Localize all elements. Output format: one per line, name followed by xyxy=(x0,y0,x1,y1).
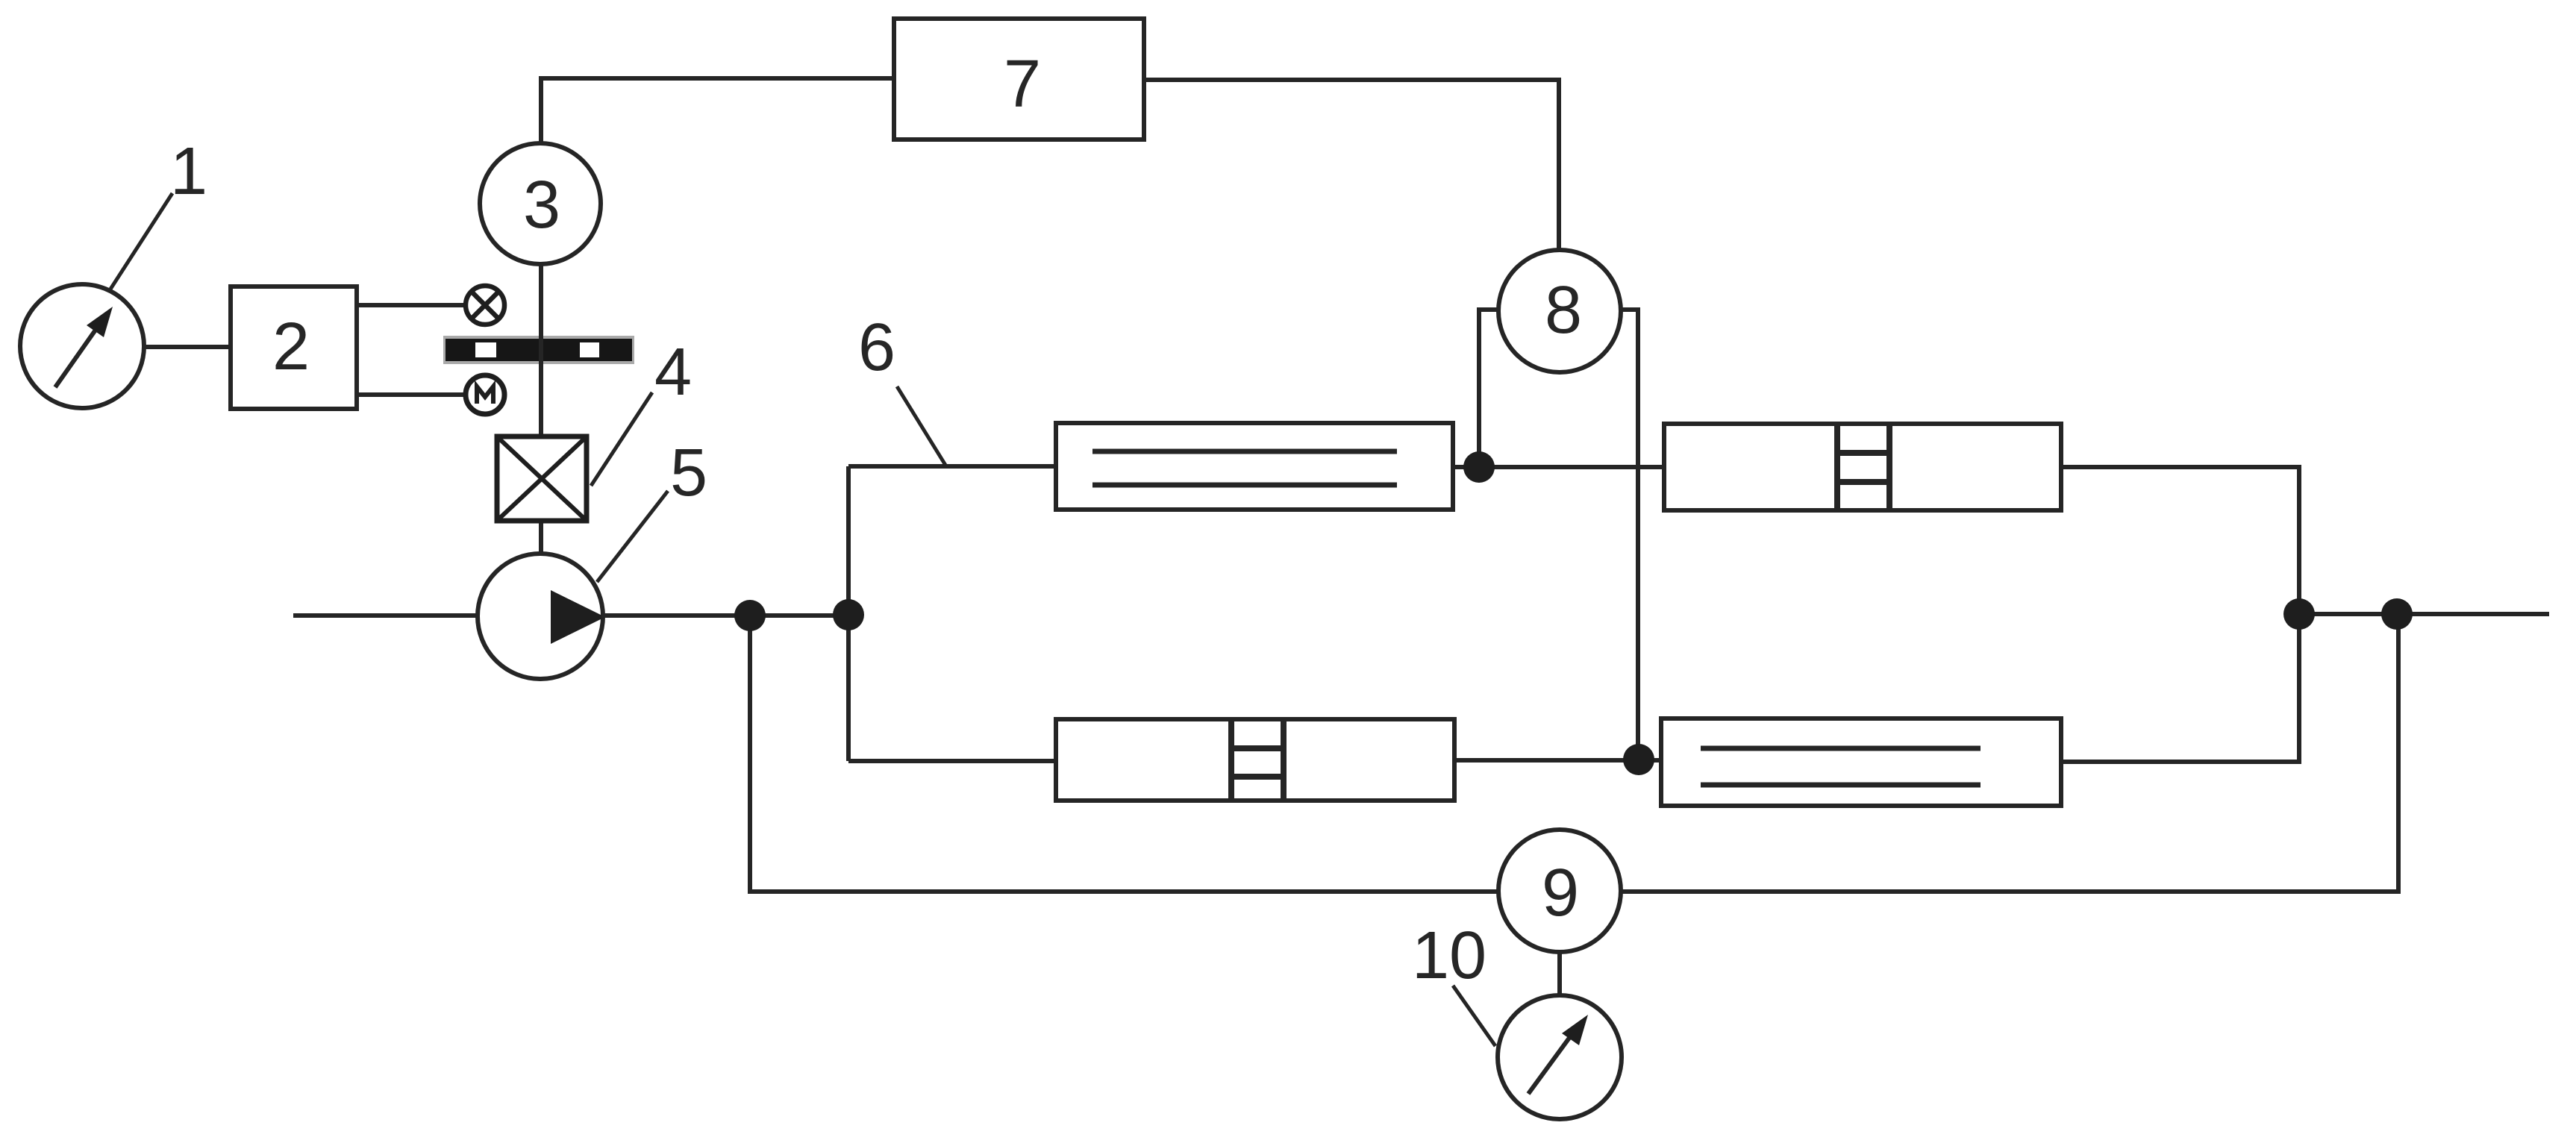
branch vertical at node B xyxy=(846,466,851,761)
node B xyxy=(833,599,864,630)
flow meter 8 xyxy=(1498,250,1621,372)
node C xyxy=(1463,451,1495,483)
leader line to label 6 xyxy=(897,386,946,466)
svg-text:4: 4 xyxy=(654,335,692,410)
svg-text:1: 1 xyxy=(170,134,207,209)
svg-text:3: 3 xyxy=(523,168,560,242)
measuring loop: node A down, bottom wire to circle 9 xyxy=(750,616,1498,892)
svg-text:8: 8 xyxy=(1545,273,1582,348)
wire column: corner to circle3 top xyxy=(541,78,894,143)
controller box 7 xyxy=(894,19,1144,140)
leader line to label 5 xyxy=(597,491,668,582)
svg-text:10: 10 xyxy=(1412,918,1486,993)
svg-text:6: 6 xyxy=(858,310,895,385)
wire gauge1 to box2 xyxy=(144,345,231,349)
motor symbol (circle with M) xyxy=(466,375,504,414)
node E xyxy=(2283,598,2315,630)
main wire pump to node B xyxy=(601,613,848,618)
wire heat pipe4 to right corner up to node E xyxy=(2061,760,2301,764)
upper branch wire to heat pipe 1 xyxy=(848,464,1056,469)
svg-text:5: 5 xyxy=(670,436,707,510)
svg-text:2: 2 xyxy=(272,310,310,384)
leader line to label 10 xyxy=(1453,986,1495,1046)
svg-text:9: 9 xyxy=(1542,856,1579,930)
lamp symbol (circle with X) xyxy=(466,286,504,325)
main outlet wire xyxy=(2299,612,2549,616)
wire orifice2 to right corner, down through node E xyxy=(2061,467,2299,761)
wire heat pipe1 to orifice 2 xyxy=(1453,465,1664,469)
pump 5 (circle with triangle) xyxy=(478,554,605,679)
circle8 left leg xyxy=(1479,310,1500,467)
wire orifice3 to heat pipe 4 xyxy=(1454,758,1661,763)
control unit 2 xyxy=(231,286,357,409)
svg-text:7: 7 xyxy=(1004,47,1041,122)
orifice section 3 (rect with double bars) xyxy=(1056,719,1454,801)
valve 4 (box with X) xyxy=(497,436,587,521)
sensor bar (slotted disc) xyxy=(443,336,634,364)
leader line to label 1 xyxy=(110,193,172,290)
node A xyxy=(734,600,766,631)
wire circle3 bottom to valve top xyxy=(539,264,543,436)
wire box2 to lamp xyxy=(357,303,465,307)
wire valve bottom to pump top xyxy=(539,521,543,554)
heat pipe 1 (rect with two inner lines) xyxy=(1056,423,1453,510)
heat pipe 4 (rect with two inner lines) xyxy=(1661,718,2061,806)
node F xyxy=(2381,598,2413,630)
circle8 right leg xyxy=(1619,310,1638,760)
gauge 1 (pressure indicator) xyxy=(20,284,144,408)
sensor circle 3 xyxy=(480,143,601,264)
flow meter 9 xyxy=(1498,830,1621,952)
wire box2 to motor xyxy=(357,392,465,397)
wire circle9 to gauge 10 xyxy=(1557,952,1562,997)
node D xyxy=(1623,744,1654,775)
orifice section 2 (rect with double bars) xyxy=(1664,424,2061,510)
gauge 10 (pressure indicator) xyxy=(1498,995,1622,1119)
main inlet wire xyxy=(293,613,480,618)
loop right side up to node F xyxy=(1621,614,2398,892)
wire box7 right to circle8 top xyxy=(1144,80,1559,250)
leader line to label 4 xyxy=(591,392,652,486)
lower branch wire to orifice 3 xyxy=(848,759,1056,763)
